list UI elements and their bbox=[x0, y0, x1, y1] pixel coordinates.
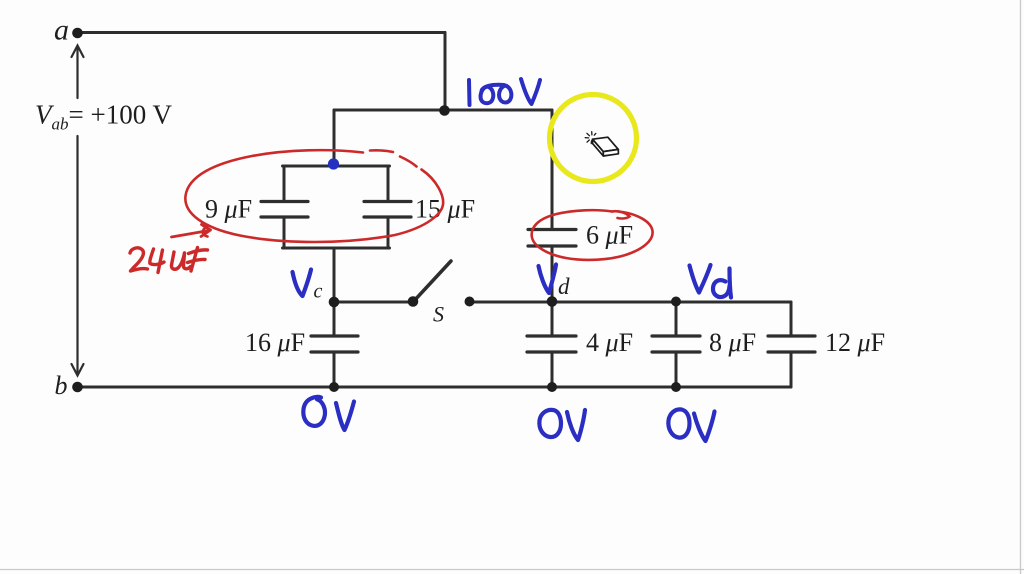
wire: parallel block bottom side bbox=[283, 247, 390, 250]
wire: bottom rail from node b to 12uF bbox=[77, 386, 791, 389]
Vab arrow head up bbox=[72, 46, 84, 58]
annotation: handwritten 0V under 8uF (blue) bbox=[668, 409, 714, 441]
node c junction dot bbox=[329, 297, 340, 308]
annotation: red ellipse around 9uF/15uF bbox=[185, 150, 443, 242]
annotation: handwritten 100 V (blue) bbox=[469, 79, 540, 105]
annotation: handwritten V of Vc (blue) bbox=[293, 270, 312, 297]
wire: vertical drop at x=445 bbox=[444, 33, 447, 111]
capacitor 6uF bottom lead bbox=[551, 248, 554, 303]
red dash 1 on ellipse bbox=[370, 150, 393, 152]
eraser cursor sparkle bbox=[585, 132, 596, 144]
wire: horizontal 100V net bbox=[334, 109, 552, 112]
eraser cursor icon bbox=[593, 137, 619, 156]
capacitor 8uF plates bbox=[652, 334, 700, 337]
svg-text:6 μF: 6 μF bbox=[586, 221, 633, 250]
capacitor 16uF plates bbox=[311, 334, 358, 337]
annotation: handwritten V of Vd (blue) bbox=[539, 265, 557, 294]
switch right terminal dot bbox=[465, 297, 475, 307]
blue ink dot on parallel block top node bbox=[328, 158, 339, 169]
Vab arrow head down bbox=[72, 364, 84, 376]
wire: node c to switch pivot bbox=[334, 301, 413, 304]
annotation: red ellipse around 6uF bbox=[532, 210, 653, 260]
annotation: handwritten 0V under 4uF (blue) bbox=[539, 410, 585, 440]
svg-text:16 μF: 16 μF bbox=[245, 328, 305, 357]
svg-text:c: c bbox=[314, 281, 323, 303]
capacitor 15uF plates bbox=[364, 200, 411, 203]
svg-text:d: d bbox=[558, 274, 570, 299]
svg-text:a: a bbox=[54, 14, 69, 47]
capacitor 8uF leads bbox=[675, 302, 678, 335]
capacitor 12uF plates bbox=[768, 334, 815, 337]
Vab arrow shaft lower bbox=[76, 136, 78, 373]
slide edge line bottom bbox=[0, 569, 1024, 571]
svg-text:8 μF: 8 μF bbox=[709, 328, 756, 357]
node d junction dot bbox=[547, 296, 558, 307]
capacitor 9uF leads bbox=[283, 166, 286, 200]
wire: parallel block top side bbox=[283, 165, 390, 168]
capacitor 15uF leads bbox=[387, 166, 390, 200]
svg-text:15 μF: 15 μF bbox=[415, 195, 475, 224]
red dash 2 on ellipse bbox=[400, 157, 417, 167]
svg-text:12 μF: 12 μF bbox=[825, 328, 885, 357]
capacitor 4uF plates bbox=[527, 334, 576, 337]
capacitor 16uF leads bbox=[333, 302, 336, 335]
node b junction dot bbox=[72, 382, 83, 393]
switch left pivot dot bbox=[408, 296, 419, 307]
annotation: handwritten 0V under 16uF (blue) bbox=[303, 397, 354, 430]
capacitor 6uF top lead bbox=[551, 110, 554, 228]
junction dot top of 8uF bbox=[671, 297, 681, 307]
svg-text:4 μF: 4 μF bbox=[586, 328, 633, 357]
node a junction dot bbox=[72, 28, 83, 39]
junction dot at 100V corner bbox=[439, 105, 450, 116]
annotation: red arrow to ellipse bbox=[172, 225, 211, 238]
wire: top rail from node a to corner bbox=[77, 31, 445, 34]
Vab arrow shaft upper bbox=[76, 48, 78, 98]
slide edge line right bbox=[1020, 0, 1022, 574]
capacitor 9uF plates bbox=[261, 200, 308, 203]
junction dot bottom of 16uF bbox=[329, 382, 339, 392]
junction dot bottom of 8uF bbox=[671, 382, 681, 392]
switch S blade bbox=[413, 261, 451, 302]
wire: switch right terminal to 12uF branch bbox=[469, 301, 791, 304]
svg-text:S: S bbox=[433, 302, 444, 327]
capacitor 6uF plates bbox=[528, 228, 576, 231]
svg-text:9 μF: 9 μF bbox=[205, 195, 252, 224]
annotation: handwritten Vd right (blue) bbox=[690, 265, 732, 298]
annotation: yellow highlighter circle bbox=[550, 95, 637, 182]
capacitor 12uF leads bbox=[790, 302, 793, 335]
junction dot bottom of 4uF bbox=[547, 382, 557, 392]
capacitor 4uF leads bbox=[551, 302, 554, 335]
red pen curl at ellipse start bbox=[203, 227, 208, 237]
svg-text:b: b bbox=[55, 371, 68, 400]
wire: stem from block bottom to node c bbox=[333, 248, 336, 302]
annotation: handwritten 24 uF (red) bbox=[130, 248, 208, 273]
red pen hook at 6uF ellipse bbox=[612, 211, 630, 218]
wire: stem down to parallel block top bbox=[333, 110, 336, 166]
